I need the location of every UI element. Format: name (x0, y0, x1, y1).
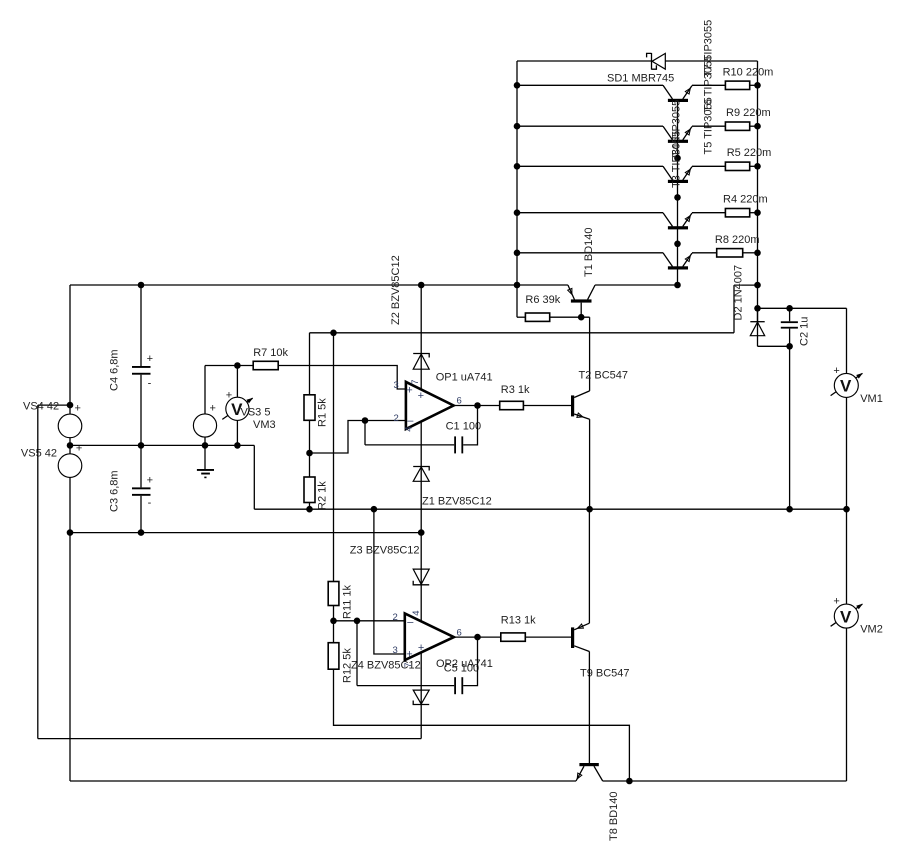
junction left rail T5 (514, 82, 521, 89)
transistor T7 TIP3055 (663, 166, 692, 183)
junction zener chain top (418, 282, 425, 289)
svg-text:+: + (147, 474, 153, 486)
svg-text:+: + (76, 443, 82, 455)
junction C4 top (138, 282, 145, 289)
junction C4 C3 mid (138, 442, 145, 449)
svg-text:+: + (418, 390, 424, 402)
junction R1 R2 node (306, 450, 313, 457)
transistor T8 BD140 (576, 763, 603, 781)
wire VS4 stub (38, 404, 70, 406)
wire mid rail (70, 444, 254, 446)
zener Z3 BZV85C12 (413, 569, 429, 585)
wire VS3 to R7 (205, 365, 253, 367)
svg-text:C4 6,8m: C4 6,8m (109, 349, 121, 391)
wire R1R2 node to OP1 minus input (310, 421, 406, 454)
junction base chain dot 3 (674, 241, 681, 248)
wire main supply top (70, 284, 568, 286)
junction left rail T4 (514, 250, 521, 257)
resistor R5 (725, 162, 749, 170)
svg-text:C1 100: C1 100 (446, 421, 481, 433)
junction R2 bottom on output bus (306, 506, 313, 513)
junction bottom rail T8 emitter branch (626, 778, 633, 785)
resistor R1 (304, 395, 315, 421)
transistor T9 BC547 (571, 623, 589, 651)
capacitor C4 (132, 285, 151, 445)
junction VS3 bottom ground node (202, 442, 209, 449)
wire top rail right of SD1 (665, 60, 757, 62)
wire feedback to C1 (365, 444, 454, 446)
svg-text:C3 6,8m: C3 6,8m (109, 470, 121, 512)
wire R11 top riser from sense bus (333, 333, 335, 582)
svg-text:VS5 42: VS5 42 (21, 448, 57, 460)
wire Z4 bottom riser (420, 705, 422, 739)
junction right rail R5 (754, 163, 761, 170)
svg-text:VS4 42: VS4 42 (23, 400, 59, 412)
wire R6 to T1 base (550, 316, 590, 318)
svg-text:–: – (407, 415, 414, 427)
junction OP1 output (474, 402, 481, 409)
source VS5 (58, 454, 82, 478)
wire left source rail (69, 285, 71, 781)
wire sense bus from R1 top (310, 332, 735, 334)
wire left rail corner to R6 (517, 316, 525, 318)
svg-text:3: 3 (394, 380, 399, 391)
wire C1 to OP1 output (463, 406, 477, 445)
capacitor C2 (781, 308, 798, 346)
svg-text:R4 220m: R4 220m (723, 194, 768, 206)
capacitor C5 (454, 677, 463, 694)
junction VS4 plus node (67, 402, 74, 409)
wire feedback to C5 (357, 685, 454, 687)
wire emitter T7 to R5 (692, 165, 725, 167)
source VS3 (193, 414, 216, 437)
transistor T6 TIP3055 (663, 126, 692, 143)
svg-text:R9 220m: R9 220m (726, 107, 771, 119)
junction output bus T2 T9 (586, 506, 593, 513)
wire R1 R2 divider chain (309, 333, 311, 509)
svg-text:Z2 BZV85C12: Z2 BZV85C12 (390, 255, 402, 325)
junction OP1 minus feedback node (362, 417, 369, 424)
wire mid rail step down (253, 445, 255, 509)
wire T2 emitter down to output bus (589, 419, 591, 509)
svg-text:R8 220m: R8 220m (715, 234, 760, 246)
svg-text:Z3 BZV85C12: Z3 BZV85C12 (350, 545, 420, 557)
wire emitter T3 to R4 (692, 212, 725, 214)
junction right rail R9 (754, 123, 761, 130)
svg-text:R11 1k: R11 1k (342, 584, 354, 619)
junction base chain to T1 (674, 282, 681, 289)
junction output bus OP2 plus (371, 506, 378, 513)
wire T1 collector to base chain (595, 284, 677, 286)
wire R7 to OP1 plus input (278, 366, 406, 390)
svg-text:+: + (75, 402, 81, 414)
wire OP2 output to R13 (454, 636, 501, 638)
wire C2 bottom riser to output bus (789, 346, 791, 509)
voltmeter VM1 (831, 308, 863, 509)
resistor R11 (328, 582, 339, 606)
wire OP2 feedback riser (356, 621, 358, 686)
svg-text:3: 3 (393, 645, 398, 656)
svg-text:-: - (148, 377, 152, 389)
wire right rail of output stage (757, 61, 759, 322)
junction base chain dot 1 (674, 155, 681, 162)
svg-text:R13 1k: R13 1k (501, 614, 536, 626)
wire top rail left of SD1 (517, 60, 652, 62)
diode D2 1N4007 (750, 308, 764, 346)
wire collector feed T6 (517, 125, 663, 127)
capacitor C1 (454, 436, 463, 453)
transistor T1 BD140 (568, 285, 595, 317)
wire collector feed T5 (517, 84, 663, 86)
svg-text:T4 TIP3055: T4 TIP3055 (671, 100, 683, 157)
svg-text:V: V (840, 377, 852, 396)
zener Z4 BZV85C12 (413, 690, 429, 704)
wire output bus horizontal (254, 508, 846, 510)
junction R11 R12 node (330, 618, 337, 625)
svg-text:T9 BC547: T9 BC547 (580, 668, 630, 680)
svg-text:C5 100: C5 100 (444, 663, 479, 675)
svg-text:Z1 BZV85C12: Z1 BZV85C12 (422, 495, 492, 507)
wire lower mid rail (70, 532, 421, 534)
wire R11 to node (333, 606, 335, 643)
wire R3 to T2 base (523, 405, 571, 407)
wire emitter T6 to R9 (692, 125, 725, 127)
wire bottom link to Z4 (38, 738, 421, 740)
junction C2 top (786, 305, 793, 312)
junction right rail output sense (754, 282, 761, 289)
junction C3 bottom (138, 529, 145, 536)
svg-text:R2 1k: R2 1k (317, 481, 329, 510)
svg-text:VS3 5: VS3 5 (241, 406, 271, 418)
wire zener chain vertical upper (420, 285, 422, 533)
svg-text:+: + (833, 365, 839, 377)
junction output bus C2 riser (786, 506, 793, 513)
svg-text:4: 4 (404, 427, 415, 432)
wire VS3 top riser (204, 366, 206, 446)
svg-text:C2 1u: C2 1u (799, 317, 811, 346)
wire collector feed T7 (517, 165, 663, 167)
wire D2 bottom to C2 bottom (758, 345, 790, 347)
svg-text:Z4 BZV85C12: Z4 BZV85C12 (351, 660, 421, 672)
svg-text:R5 220m: R5 220m (727, 147, 772, 159)
wire emitter T5 to R10 (692, 84, 725, 86)
wire R13 to T9 base (525, 636, 571, 638)
wire T9 bottom to T8 base (588, 652, 590, 764)
wire bottom rail left (70, 780, 576, 782)
junction left rail T6 (514, 123, 521, 130)
junction OP2 minus feedback node (354, 618, 361, 625)
wire zener chain vertical lower (420, 533, 422, 705)
op-amp OP2 uA741 (405, 614, 454, 661)
svg-text:2: 2 (394, 413, 399, 424)
schottky diode SD1 (647, 53, 666, 70)
op-amp OP1 uA741 (406, 382, 454, 429)
wire emitter T4 to R8 (692, 252, 717, 254)
svg-text:R10 220m: R10 220m (723, 66, 774, 78)
svg-text:VM2: VM2 (860, 624, 883, 636)
svg-text:2: 2 (393, 612, 398, 623)
svg-text:–: – (407, 616, 414, 628)
wire collector feed T3 (517, 212, 663, 214)
junction left rail supply wire (514, 282, 521, 289)
svg-text:SD1 MBR745: SD1 MBR745 (607, 73, 674, 85)
wire feedback riser OP1 (364, 421, 366, 445)
junction OP2 output (474, 634, 481, 641)
wire OP2 plus riser from output bus (374, 509, 405, 654)
svg-text:+: + (418, 642, 424, 654)
resistor R4 (725, 209, 749, 217)
svg-text:+: + (226, 389, 232, 401)
junction right rail R8 (754, 250, 761, 257)
svg-text:4: 4 (411, 611, 422, 616)
resistor R7 (253, 361, 278, 369)
junction left rail T7 (514, 163, 521, 170)
junction left rail T3 (514, 209, 521, 216)
wire OP1 output to R3 (454, 405, 500, 407)
source VS4 (58, 414, 82, 438)
wire VS4 left drop (37, 405, 39, 738)
wire left rail of output stage (516, 61, 518, 317)
transistor T2 BC547 (571, 391, 590, 419)
junction base chain dot 2 (674, 194, 681, 201)
svg-text:+: + (147, 353, 153, 365)
resistor R8 (717, 249, 743, 257)
capacitor C3 (132, 445, 151, 532)
wire D2 branch top (758, 307, 847, 309)
junction lower mid rail at zener chain (418, 529, 425, 536)
junction mid node left rail (67, 442, 74, 449)
wire C5 to OP2 output (463, 637, 477, 686)
transistor T5 TIP3055 (663, 85, 692, 102)
svg-text:T2 BC547: T2 BC547 (579, 370, 629, 382)
resistor R12 (328, 643, 339, 670)
junction right rail R10 (754, 82, 761, 89)
junction right rail D2 branch (754, 305, 761, 312)
junction T1 base node (578, 314, 585, 321)
resistor R13 (501, 633, 526, 641)
svg-text:T7 TIP3055: T7 TIP3055 (703, 20, 715, 77)
wire T9 top to output bus (588, 509, 590, 623)
ground (197, 445, 214, 478)
wire bottom rail right (603, 780, 847, 782)
wire output sense riser (733, 285, 735, 333)
zener Z1 BZV85C12 (413, 467, 429, 482)
junction sense bus to R11 (330, 330, 337, 337)
svg-text:-: - (148, 497, 152, 509)
junction right rail R4 (754, 209, 761, 216)
wire common base chain of output transistors (677, 101, 679, 286)
svg-text:+: + (406, 385, 412, 397)
wire output sense link (734, 284, 758, 286)
svg-text:VM3: VM3 (253, 419, 276, 431)
resistor R6 (525, 313, 549, 321)
wire R9 to rail (750, 125, 758, 127)
wire R5 to rail (750, 165, 758, 167)
junction left rail lower wire (67, 529, 74, 536)
svg-text:D2 1N4007: D2 1N4007 (733, 265, 745, 321)
resistor R2 (304, 477, 315, 503)
wire collector feed T4 (517, 252, 663, 254)
resistor R9 (725, 122, 749, 130)
junction VM3 bottom (234, 442, 241, 449)
svg-text:R7 10k: R7 10k (253, 347, 288, 359)
wire R4 to rail (750, 212, 758, 214)
svg-text:R3 1k: R3 1k (501, 384, 530, 396)
voltmeter VM2 (831, 509, 863, 781)
junction right bus VM1 bottom (843, 506, 850, 513)
resistor R10 (725, 81, 749, 89)
svg-text:OP1 uA741: OP1 uA741 (436, 372, 493, 384)
wire R11R12 node to OP2 minus input (334, 620, 405, 622)
svg-text:T8 BD140: T8 BD140 (608, 791, 620, 841)
zener Z2 BZV85C12 (413, 354, 429, 370)
junction C2 bottom (786, 343, 793, 350)
svg-text:+: + (210, 403, 216, 415)
transistor T4 TIP3055 (663, 253, 692, 270)
svg-text:+: + (833, 596, 839, 608)
voltmeter VM3 (222, 366, 253, 446)
wire T1 base node down to T2 collector (589, 317, 591, 391)
svg-text:V: V (840, 607, 852, 626)
resistor R3 (500, 401, 524, 409)
wire R10 to rail (750, 84, 758, 86)
wire R12 down and across to T8 emitter (334, 669, 630, 781)
wire R8 to rail (743, 252, 758, 254)
svg-text:R1 5k: R1 5k (317, 398, 329, 427)
svg-text:VM1: VM1 (860, 393, 883, 405)
svg-text:R6 39k: R6 39k (525, 294, 560, 306)
junction VM3 top (234, 362, 241, 369)
transistor T3 TIP3055 (663, 213, 692, 230)
svg-text:T1 BD140: T1 BD140 (583, 227, 595, 277)
